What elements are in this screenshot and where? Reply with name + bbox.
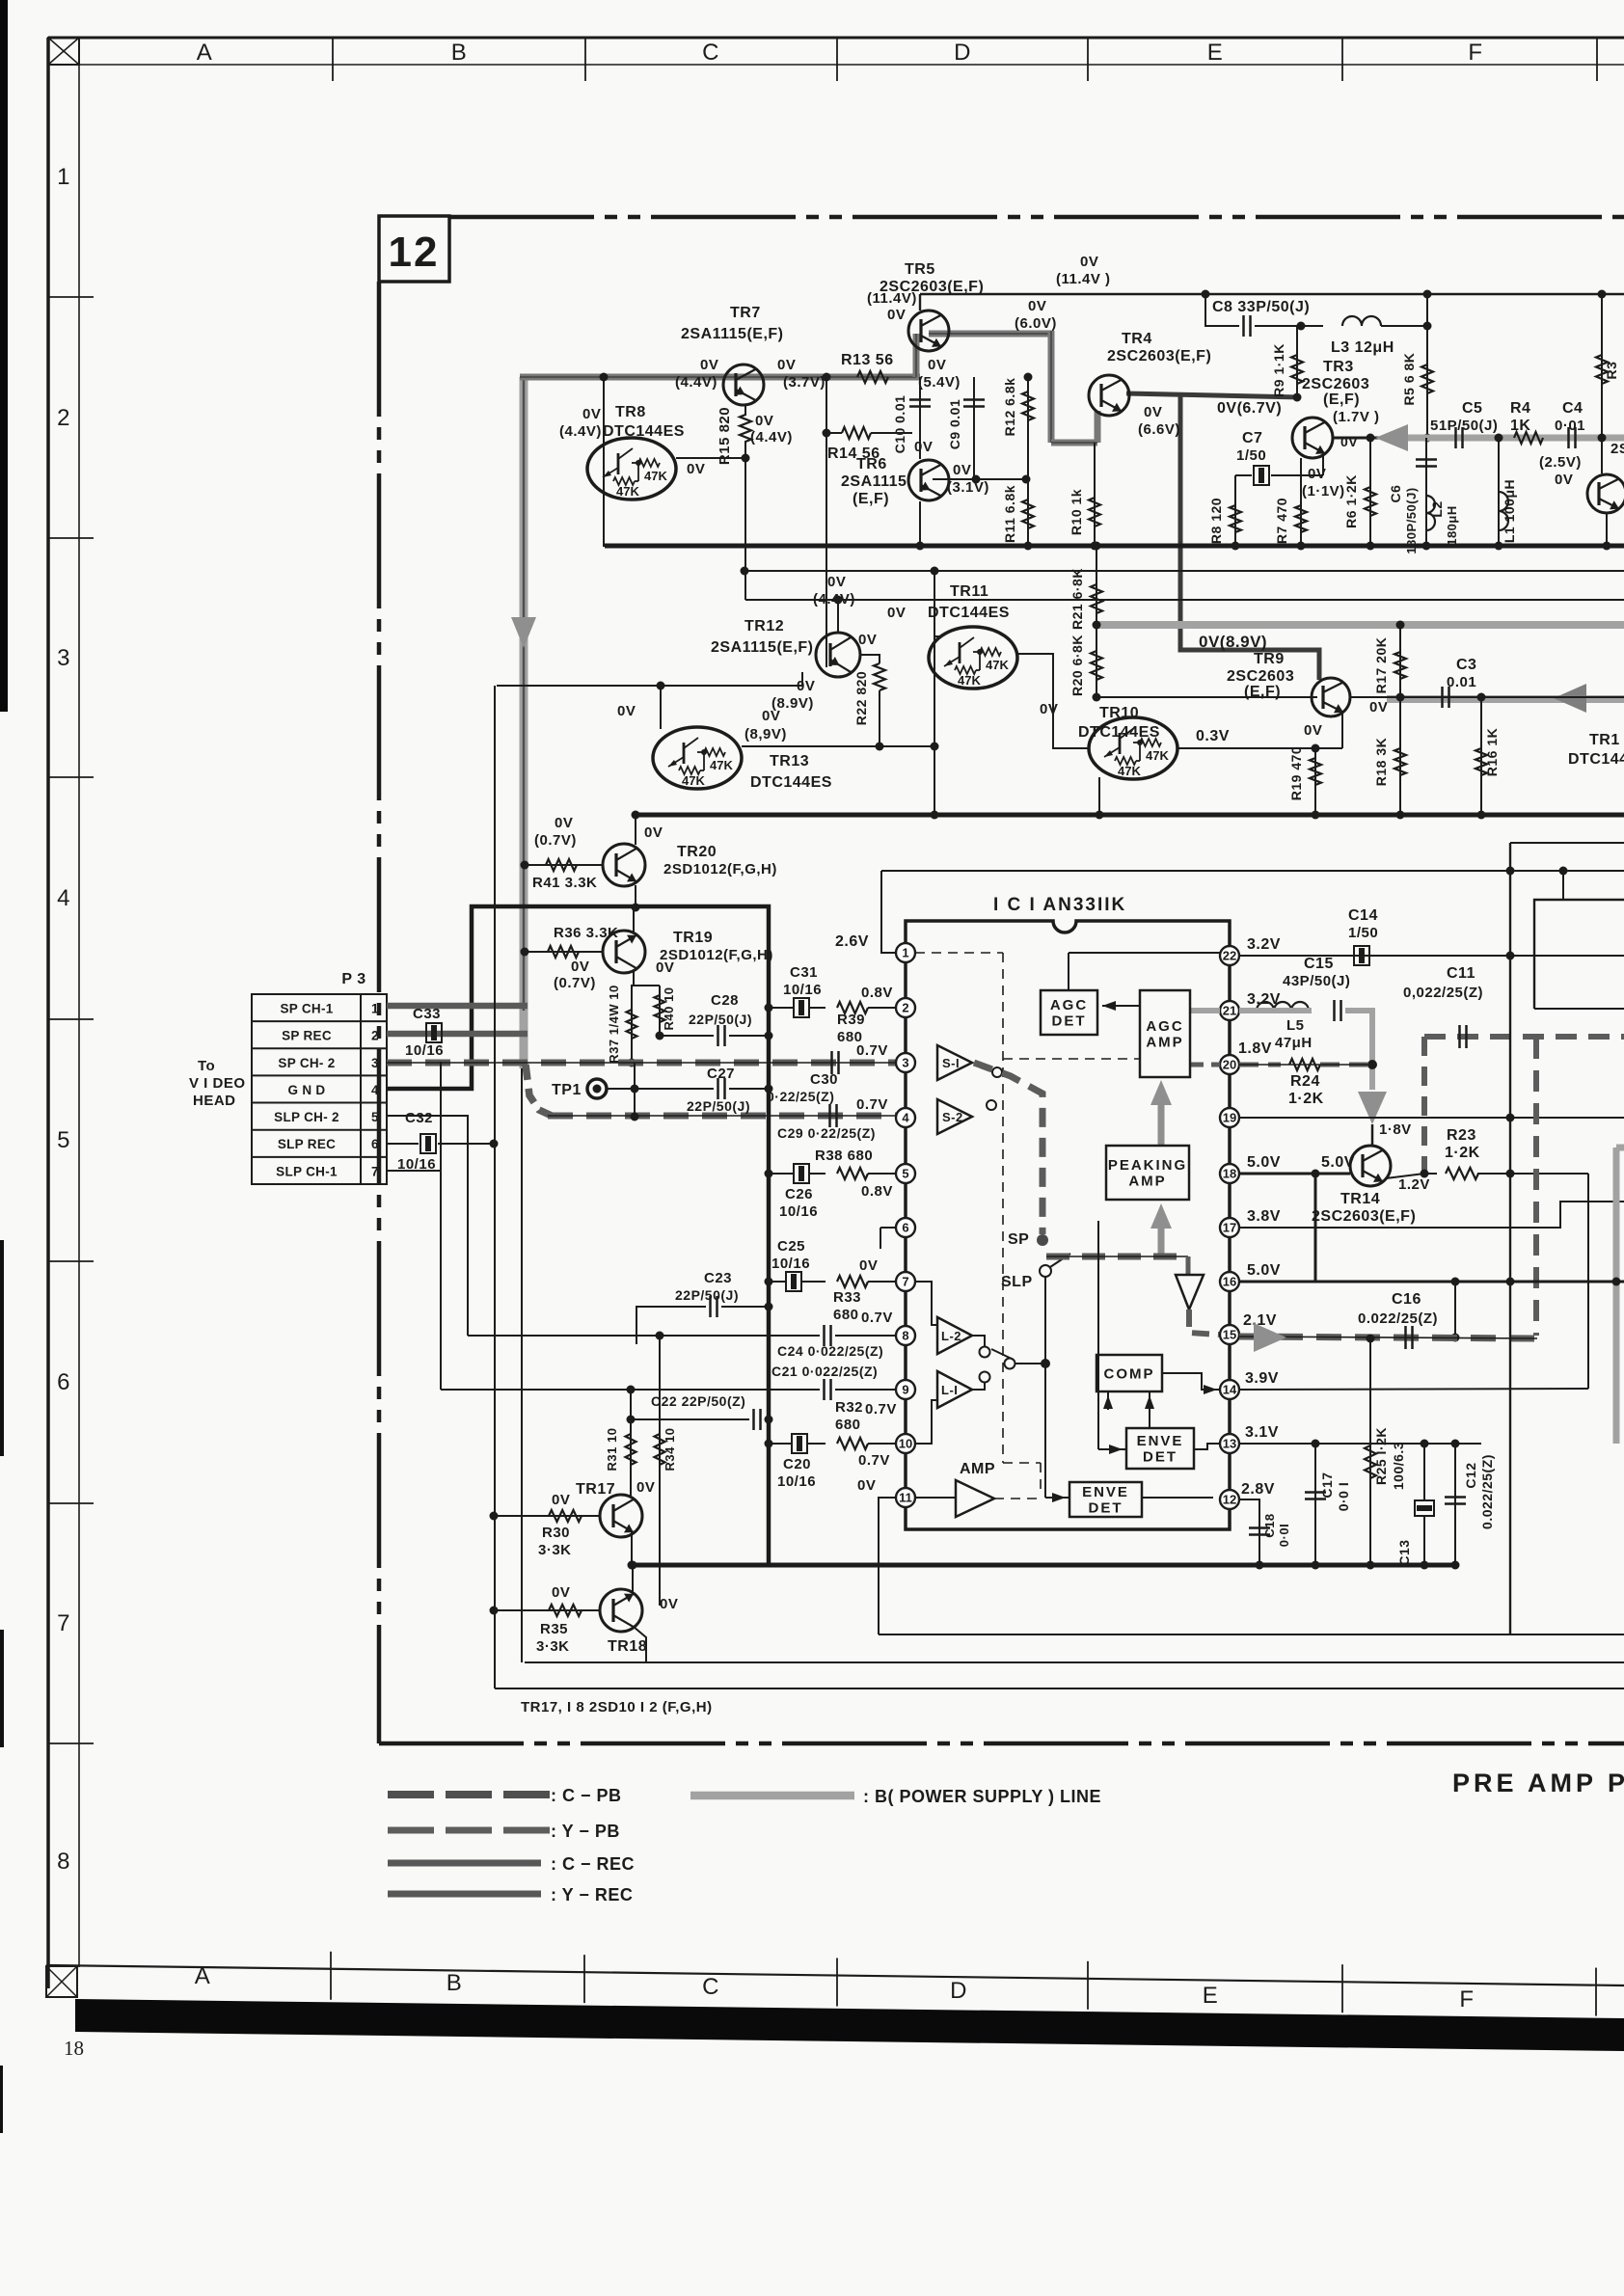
svg-text:1·2K: 1·2K [1445, 1145, 1480, 1161]
svg-text:SP: SP [1008, 1231, 1029, 1248]
svg-text:0.8V: 0.8V [861, 1183, 893, 1200]
svg-text:(1.7V ): (1.7V ) [1333, 409, 1380, 425]
svg-text:(3.1V): (3.1V) [947, 479, 989, 496]
column ticks top [332, 38, 334, 81]
transistor TR7 [723, 365, 764, 405]
svg-text:(2.5V): (2.5V) [1539, 454, 1582, 471]
svg-text:S-I: S-I [942, 1056, 960, 1070]
wire TR12 base [826, 643, 827, 667]
svg-text:R31 10: R31 10 [605, 1428, 619, 1472]
svg-text:C21 0·022/25(Z): C21 0·022/25(Z) [771, 1364, 878, 1379]
wire TR13 input [660, 686, 662, 729]
svg-text:DET: DET [1052, 1013, 1087, 1030]
svg-text:0V: 0V [1144, 404, 1162, 420]
transistor TR19 [603, 931, 645, 973]
resistor R19 [1314, 748, 1316, 815]
svg-text:C33: C33 [413, 1006, 441, 1022]
svg-text:R20 6·8K: R20 6·8K [1069, 635, 1085, 696]
svg-text:DTC144ES: DTC144ES [1078, 724, 1160, 741]
resistor R6 [1369, 438, 1371, 546]
svg-text:R18 3K: R18 3K [1373, 738, 1389, 786]
svg-text:TR18: TR18 [608, 1638, 647, 1655]
wire x1509 down [1454, 1282, 1456, 1337]
gray line TR5 right [929, 331, 1051, 338]
svg-text:B: B [451, 40, 468, 66]
svg-text:C32: C32 [405, 1110, 433, 1126]
svg-text:180μH: 180μH [1445, 505, 1459, 546]
wire TR14 emitter [1386, 1174, 1424, 1178]
capacitor C31 / resistor R39 pin2 [769, 1007, 793, 1009]
svg-text:2.8V: 2.8V [1241, 1481, 1275, 1498]
svg-text:R17 20K: R17 20K [1373, 637, 1389, 694]
svg-text:680: 680 [835, 1417, 861, 1433]
svg-text:: C − REC: : C − REC [551, 1854, 635, 1874]
resistor R36 [524, 951, 603, 953]
svg-text:0·22/25(Z): 0·22/25(Z) [767, 1089, 834, 1104]
resistor R34 [659, 1336, 661, 1485]
capacitor C3 [1441, 687, 1444, 708]
svg-text:R35: R35 [540, 1621, 568, 1637]
svg-text:1: 1 [57, 164, 70, 190]
svg-text:V I DEO: V I DEO [189, 1075, 246, 1092]
svg-text:0V: 0V [552, 1492, 570, 1508]
svg-text:0V: 0V [700, 357, 718, 373]
transistor TR18 [600, 1589, 642, 1632]
resistor R21 [1096, 546, 1097, 625]
svg-text:TR6: TR6 [856, 456, 887, 473]
IC1 AN3311K outline [906, 921, 1230, 1529]
svg-text:4: 4 [902, 1111, 909, 1125]
block number 12 box [379, 216, 449, 282]
svg-text:0V(6.7V): 0V(6.7V) [1217, 400, 1282, 417]
svg-text:1/50: 1/50 [1348, 925, 1378, 941]
resistor R8 [1234, 475, 1236, 546]
svg-text:(4.4V): (4.4V) [750, 429, 793, 446]
svg-text:(1·1V): (1·1V) [1302, 483, 1345, 500]
svg-text:(E,F): (E,F) [1323, 392, 1360, 408]
svg-text:S-2: S-2 [942, 1110, 963, 1124]
svg-text:P 3: P 3 [341, 971, 365, 987]
REC thick route from P3 GND [387, 906, 769, 1565]
wire TR8 collector [603, 377, 605, 547]
REC gray wire P3 pin2 [387, 1031, 528, 1038]
gray route pin21 to TR14 [1253, 1008, 1312, 1013]
svg-text:0·0 I: 0·0 I [1336, 1482, 1351, 1512]
switch L contacts [972, 1336, 985, 1346]
svg-text:C4: C4 [1562, 400, 1583, 417]
resistor R20 [1096, 625, 1097, 697]
svg-text:C29 0·22/25(Z): C29 0·22/25(Z) [777, 1125, 876, 1141]
resistor R12 [1027, 377, 1029, 546]
legend Y-PB [388, 1827, 434, 1834]
boundary dash-dot left [377, 282, 382, 1743]
capacitor C30 on dashed row [830, 1051, 833, 1074]
svg-text:5.0V: 5.0V [1247, 1154, 1281, 1171]
capacitor C17 [1314, 1444, 1316, 1565]
svg-text:TR9: TR9 [1254, 651, 1285, 667]
svg-text:8: 8 [57, 1849, 70, 1875]
svg-text:0V: 0V [827, 574, 846, 590]
IC pins right [1220, 946, 1239, 965]
resistor R13 [857, 371, 888, 383]
wire row 622 [745, 599, 1624, 601]
capacitor C5 [1454, 427, 1457, 448]
svg-text:0V: 0V [636, 1479, 655, 1496]
svg-text:10: 10 [899, 1437, 912, 1451]
resistor R11 [1022, 500, 1034, 528]
SLP switch contact [1040, 1265, 1051, 1277]
svg-text:C27: C27 [707, 1066, 735, 1082]
svg-text:3.2V: 3.2V [1247, 936, 1281, 953]
svg-text:TR11: TR11 [950, 583, 988, 600]
svg-text:22P/50(J): 22P/50(J) [675, 1287, 739, 1303]
svg-text:3·3K: 3·3K [538, 1542, 572, 1558]
wire row 1724 [525, 1661, 1624, 1663]
capacitor C33 [426, 1023, 442, 1042]
svg-text:R10 1k: R10 1k [1069, 489, 1084, 535]
digital transistor TR8 [587, 438, 676, 500]
svg-text:SP CH-1: SP CH-1 [280, 1002, 333, 1016]
transistor TR17 [600, 1495, 642, 1537]
PB dashed line SP CH-2 row [387, 1060, 896, 1067]
svg-text:C26: C26 [785, 1186, 813, 1202]
svg-text:47K: 47K [1146, 748, 1169, 763]
resistor R31 [630, 1390, 632, 1497]
wire row 723 base TR9 [1096, 696, 1317, 698]
SP switch contact [1037, 1234, 1048, 1246]
svg-text:HEAD: HEAD [193, 1093, 236, 1109]
B line row 648 [1096, 621, 1624, 629]
svg-text:11: 11 [899, 1491, 912, 1505]
svg-text:4: 4 [371, 1083, 379, 1097]
svg-text:C13: C13 [1396, 1539, 1412, 1565]
wire TR17 emitter [631, 1532, 633, 1565]
svg-text:C11: C11 [1447, 965, 1475, 982]
capacitor C20 / resistor R32 pin10 [769, 1443, 791, 1445]
resistor R15 [744, 406, 746, 416]
svg-text:3.1V: 3.1V [1245, 1424, 1279, 1441]
wire TR20 emitter [635, 885, 636, 907]
inductor L1 [1498, 438, 1500, 546]
svg-text:SLP REC: SLP REC [278, 1137, 336, 1151]
svg-text:3: 3 [57, 645, 70, 671]
svg-text:2SC2603: 2SC2603 [1302, 376, 1369, 392]
wire SLP column [1044, 1277, 1046, 1364]
svg-text:1/50: 1/50 [1236, 447, 1266, 464]
svg-text:C8 33P/50(J): C8 33P/50(J) [1212, 299, 1310, 315]
B line right margin vertical [1616, 1145, 1624, 1151]
capacitor C8 [1242, 315, 1245, 337]
capacitor C12 [1454, 1444, 1456, 1565]
wire TR12 collector row 711 [497, 672, 802, 686]
svg-text:(6.6V): (6.6V) [1138, 421, 1180, 438]
svg-text:680: 680 [833, 1307, 859, 1323]
svg-text:R11 6.8k: R11 6.8k [1002, 485, 1017, 543]
wire C8 branch [1205, 294, 1239, 326]
resistor R23 [1446, 1168, 1478, 1179]
svg-text:3.8V: 3.8V [1247, 1208, 1281, 1225]
wire into ENVE DET2 [1044, 1364, 1046, 1498]
svg-text:C6: C6 [1388, 485, 1403, 503]
B line vertical left [520, 377, 528, 1068]
svg-text:22P/50(J): 22P/50(J) [687, 1098, 750, 1114]
arrows into COMP [1107, 1391, 1109, 1410]
svg-text:0·01: 0·01 [1555, 418, 1585, 434]
svg-text:L5: L5 [1286, 1017, 1305, 1034]
scan edge marks left [0, 0, 8, 712]
gray stubs AGC AMP to pins [1190, 1008, 1220, 1013]
long vertical x1566 [1509, 843, 1511, 1634]
transistor TR3 [1292, 418, 1333, 458]
wire row 1751 [495, 1688, 1624, 1689]
thick wire down to TR9 [1180, 395, 1319, 680]
svg-text:R37 1/4W 10: R37 1/4W 10 [607, 985, 621, 1063]
svg-text:6: 6 [902, 1221, 908, 1235]
wire TR18 collector [632, 1565, 634, 1594]
switch contacts S [992, 1067, 1002, 1077]
svg-text:TR10: TR10 [1099, 705, 1139, 721]
svg-text:R39: R39 [837, 1012, 865, 1028]
wire row 592 [744, 570, 1624, 572]
svg-text:E: E [1203, 1983, 1219, 2009]
resistor R35 [494, 1609, 600, 1611]
svg-text:C5: C5 [1462, 400, 1482, 417]
svg-text:R9 1·1K: R9 1·1K [1271, 343, 1286, 397]
svg-text:TR17, I 8 2SD10 I 2 (F,G,H: TR17, I 8 2SD10 I 2 (F,G,H) [521, 1699, 713, 1715]
svg-text:C28: C28 [711, 992, 739, 1009]
svg-text:TR12: TR12 [744, 618, 784, 635]
svg-text:0.7V: 0.7V [861, 1310, 893, 1326]
svg-text:R25 I·2K: R25 I·2K [1373, 1427, 1389, 1485]
REC gray wire P3 pin1 [387, 1003, 528, 1010]
svg-text:(11.4V ): (11.4V ) [1056, 271, 1111, 287]
svg-text:2S: 2S [1610, 441, 1624, 457]
svg-text:47K: 47K [958, 673, 981, 688]
supply rail 11.4V [920, 293, 1624, 295]
wire TR11 output [1017, 654, 1090, 748]
capacitor C22 [631, 1418, 749, 1420]
svg-text:680: 680 [837, 1029, 863, 1045]
wire TR9 emitter [1341, 714, 1343, 748]
svg-text:14: 14 [1223, 1383, 1237, 1397]
resistor R30 [494, 1515, 600, 1517]
svg-text:R3: R3 [1604, 362, 1619, 380]
wire row 1046 box bottom [1534, 1008, 1624, 1010]
gray flow arrow down [511, 617, 536, 648]
svg-text:R7 470: R7 470 [1274, 498, 1289, 544]
svg-text:0V: 0V [762, 708, 780, 724]
svg-text:ENVE: ENVE [1082, 1484, 1129, 1500]
svg-text:47K: 47K [1118, 764, 1141, 778]
black bar bottom [75, 1999, 1624, 2051]
wire SLP bias column [494, 686, 496, 1688]
svg-text:0V: 0V [887, 605, 906, 621]
svg-text:0V: 0V [777, 357, 796, 373]
svg-text:3·3K: 3·3K [536, 1638, 570, 1655]
wire pin22 row C14 [1239, 955, 1624, 957]
svg-text:(0.7V): (0.7V) [554, 975, 596, 991]
resistor R40 [659, 986, 661, 1036]
svg-text:2SA1115(E,F): 2SA1115(E,F) [711, 639, 814, 656]
svg-text:TR17: TR17 [576, 1481, 615, 1498]
svg-text:DTC144ES: DTC144ES [603, 423, 685, 440]
gray B arrow left on signal line [1387, 435, 1624, 442]
svg-text:9: 9 [902, 1383, 908, 1397]
wire row 1695 [879, 1634, 1624, 1635]
svg-text:C: C [702, 1974, 719, 2000]
svg-text:2: 2 [371, 1029, 379, 1043]
svg-text:0.7V: 0.7V [865, 1401, 897, 1418]
svg-text:21: 21 [1223, 1004, 1236, 1018]
svg-text:0V: 0V [687, 461, 705, 477]
svg-text:(6.0V): (6.0V) [1015, 315, 1057, 332]
wire TR8 output [676, 457, 745, 459]
digital transistor TR11 [929, 627, 1017, 689]
row ticks left [48, 296, 94, 298]
svg-text:AMP: AMP [1128, 1174, 1166, 1190]
wire ENVE DET1 to pin13 side [1194, 1444, 1220, 1449]
svg-text:10/16: 10/16 [405, 1042, 444, 1059]
svg-text:0V: 0V [656, 959, 674, 976]
svg-text:R19 470: R19 470 [1288, 746, 1304, 800]
svg-text:TR19: TR19 [673, 930, 713, 946]
svg-text:R23: R23 [1447, 1127, 1476, 1144]
svg-text:(4.4V): (4.4V) [675, 374, 717, 391]
svg-text:47K: 47K [682, 773, 705, 788]
svg-text:TR7: TR7 [730, 305, 761, 321]
svg-text:L-2: L-2 [941, 1329, 961, 1343]
gray line elbow down [1048, 331, 1055, 443]
resistor R14 [842, 427, 871, 439]
wire TR9 collector row [1349, 696, 1387, 698]
svg-text:SLP: SLP [1001, 1274, 1033, 1290]
svg-text:0·0I: 0·0I [1277, 1524, 1291, 1547]
svg-text:R12 6.8k: R12 6.8k [1002, 378, 1017, 437]
boundary dash-dot top [449, 215, 1624, 220]
svg-text:1: 1 [371, 1002, 379, 1016]
svg-text:0V: 0V [859, 1257, 878, 1274]
svg-text:C23: C23 [704, 1270, 732, 1286]
thick vertical x1364 [1314, 1174, 1317, 1282]
PB dashed down to amp triangle [1186, 1256, 1191, 1275]
svg-text:1K: 1K [1510, 418, 1530, 434]
svg-text:12: 12 [389, 229, 440, 276]
svg-text:0V: 0V [914, 439, 933, 455]
svg-text:R13 56: R13 56 [841, 352, 894, 368]
resistor R9 [1296, 326, 1298, 398]
svg-text:2SA1115: 2SA1115 [841, 473, 907, 490]
svg-text:3: 3 [902, 1056, 908, 1070]
wire row 874 [1510, 842, 1624, 844]
svg-text:18: 18 [1223, 1167, 1236, 1181]
wire TR10 emitter to bus2 [1098, 777, 1100, 815]
capacitor C27 [717, 1078, 719, 1099]
svg-text:0.7V: 0.7V [858, 1452, 890, 1469]
svg-text:1.2V: 1.2V [1398, 1176, 1430, 1193]
wire TR19 emitter top [633, 907, 635, 932]
svg-text:0V: 0V [755, 413, 773, 429]
svg-text:PEAKING: PEAKING [1108, 1157, 1187, 1174]
box ENVE DET 1 [1126, 1428, 1194, 1469]
page border frame [48, 37, 1624, 40]
resistor R18 [1399, 697, 1401, 815]
open amp triangle [1176, 1275, 1204, 1310]
svg-text:D: D [954, 40, 971, 66]
inductor L5 pin21 [1239, 1008, 1253, 1013]
PB dashed pin15 row C16 [1239, 1337, 1536, 1338]
wire TR4 collector thick [1126, 393, 1300, 397]
wire pin13 row [1239, 1443, 1481, 1445]
svg-text:6: 6 [57, 1369, 70, 1395]
svg-text:6: 6 [371, 1137, 379, 1151]
svg-text:3.9V: 3.9V [1245, 1370, 1279, 1387]
PB dashed to pin15 [1189, 1310, 1219, 1335]
svg-text:L1 100μH: L1 100μH [1502, 479, 1517, 543]
svg-text:: B( POWER SUPPLY ) LINE: : B( POWER SUPPLY ) LINE [863, 1787, 1101, 1806]
svg-text:4: 4 [57, 885, 70, 911]
svg-text:C31: C31 [790, 964, 818, 981]
digital transistor TR10 [1089, 717, 1177, 779]
legend C-REC [388, 1860, 541, 1867]
svg-text:DTC144ES: DTC144ES [928, 605, 1010, 621]
svg-text:R40 10: R40 10 [662, 987, 676, 1031]
amp L-1 [937, 1371, 972, 1408]
resistor R25 [1369, 1338, 1371, 1565]
svg-text:0V: 0V [552, 1584, 570, 1601]
svg-text:R34 10: R34 10 [663, 1428, 677, 1472]
capacitor C24 pin8 row [468, 1335, 820, 1337]
svg-text:0V: 0V [1340, 434, 1358, 449]
svg-text:7: 7 [902, 1275, 908, 1289]
svg-text:0V: 0V [1369, 699, 1388, 716]
svg-text:R5 6 8K: R5 6 8K [1401, 353, 1417, 406]
test point TP1 [587, 1079, 607, 1098]
svg-text:R8 120: R8 120 [1208, 498, 1224, 544]
svg-text:(8,9V): (8,9V) [744, 726, 787, 743]
digital transistor TR13 [653, 727, 742, 789]
box top right [1534, 900, 1624, 1009]
resistor R7 [1300, 458, 1302, 546]
capacitor C13 [1423, 1444, 1425, 1500]
svg-text:C17: C17 [1319, 1472, 1335, 1498]
svg-text:G N D: G N D [287, 1083, 325, 1097]
svg-text:R15 820: R15 820 [717, 407, 733, 465]
svg-text:TR4: TR4 [1122, 331, 1152, 347]
wire pin19 row [1239, 1117, 1624, 1119]
svg-text:0,022/25(Z): 0,022/25(Z) [1403, 985, 1483, 1001]
svg-text:C7: C7 [1242, 430, 1262, 446]
svg-text:R30: R30 [542, 1525, 570, 1541]
capacitor C23 [636, 1307, 706, 1344]
svg-text:DTC144: DTC144 [1568, 751, 1624, 768]
wire TR20 collector [635, 815, 636, 845]
wire P3 pin5 [387, 1116, 468, 1336]
svg-text:10/16: 10/16 [777, 1473, 816, 1490]
svg-text:L3 12μH: L3 12μH [1331, 339, 1394, 356]
capacitor C15 [1333, 1000, 1336, 1021]
svg-text:: Y − REC: : Y − REC [551, 1885, 633, 1904]
resistor R24 pin20 [1239, 1063, 1281, 1067]
svg-text:0V: 0V [644, 824, 663, 841]
svg-text:C22 22P/50(Z): C22 22P/50(Z) [651, 1393, 745, 1409]
wire pin14 row [1239, 1389, 1588, 1390]
svg-text:2SC2603(E,F): 2SC2603(E,F) [1312, 1208, 1416, 1225]
PB dashed SP row 1305 [1046, 1254, 1188, 1260]
wire TR3 emitter down [1322, 455, 1324, 475]
svg-text:0V: 0V [660, 1596, 678, 1612]
transistor TR9 [1312, 678, 1350, 716]
svg-text:C24 0·022/25(Z): C24 0·022/25(Z) [777, 1343, 883, 1359]
